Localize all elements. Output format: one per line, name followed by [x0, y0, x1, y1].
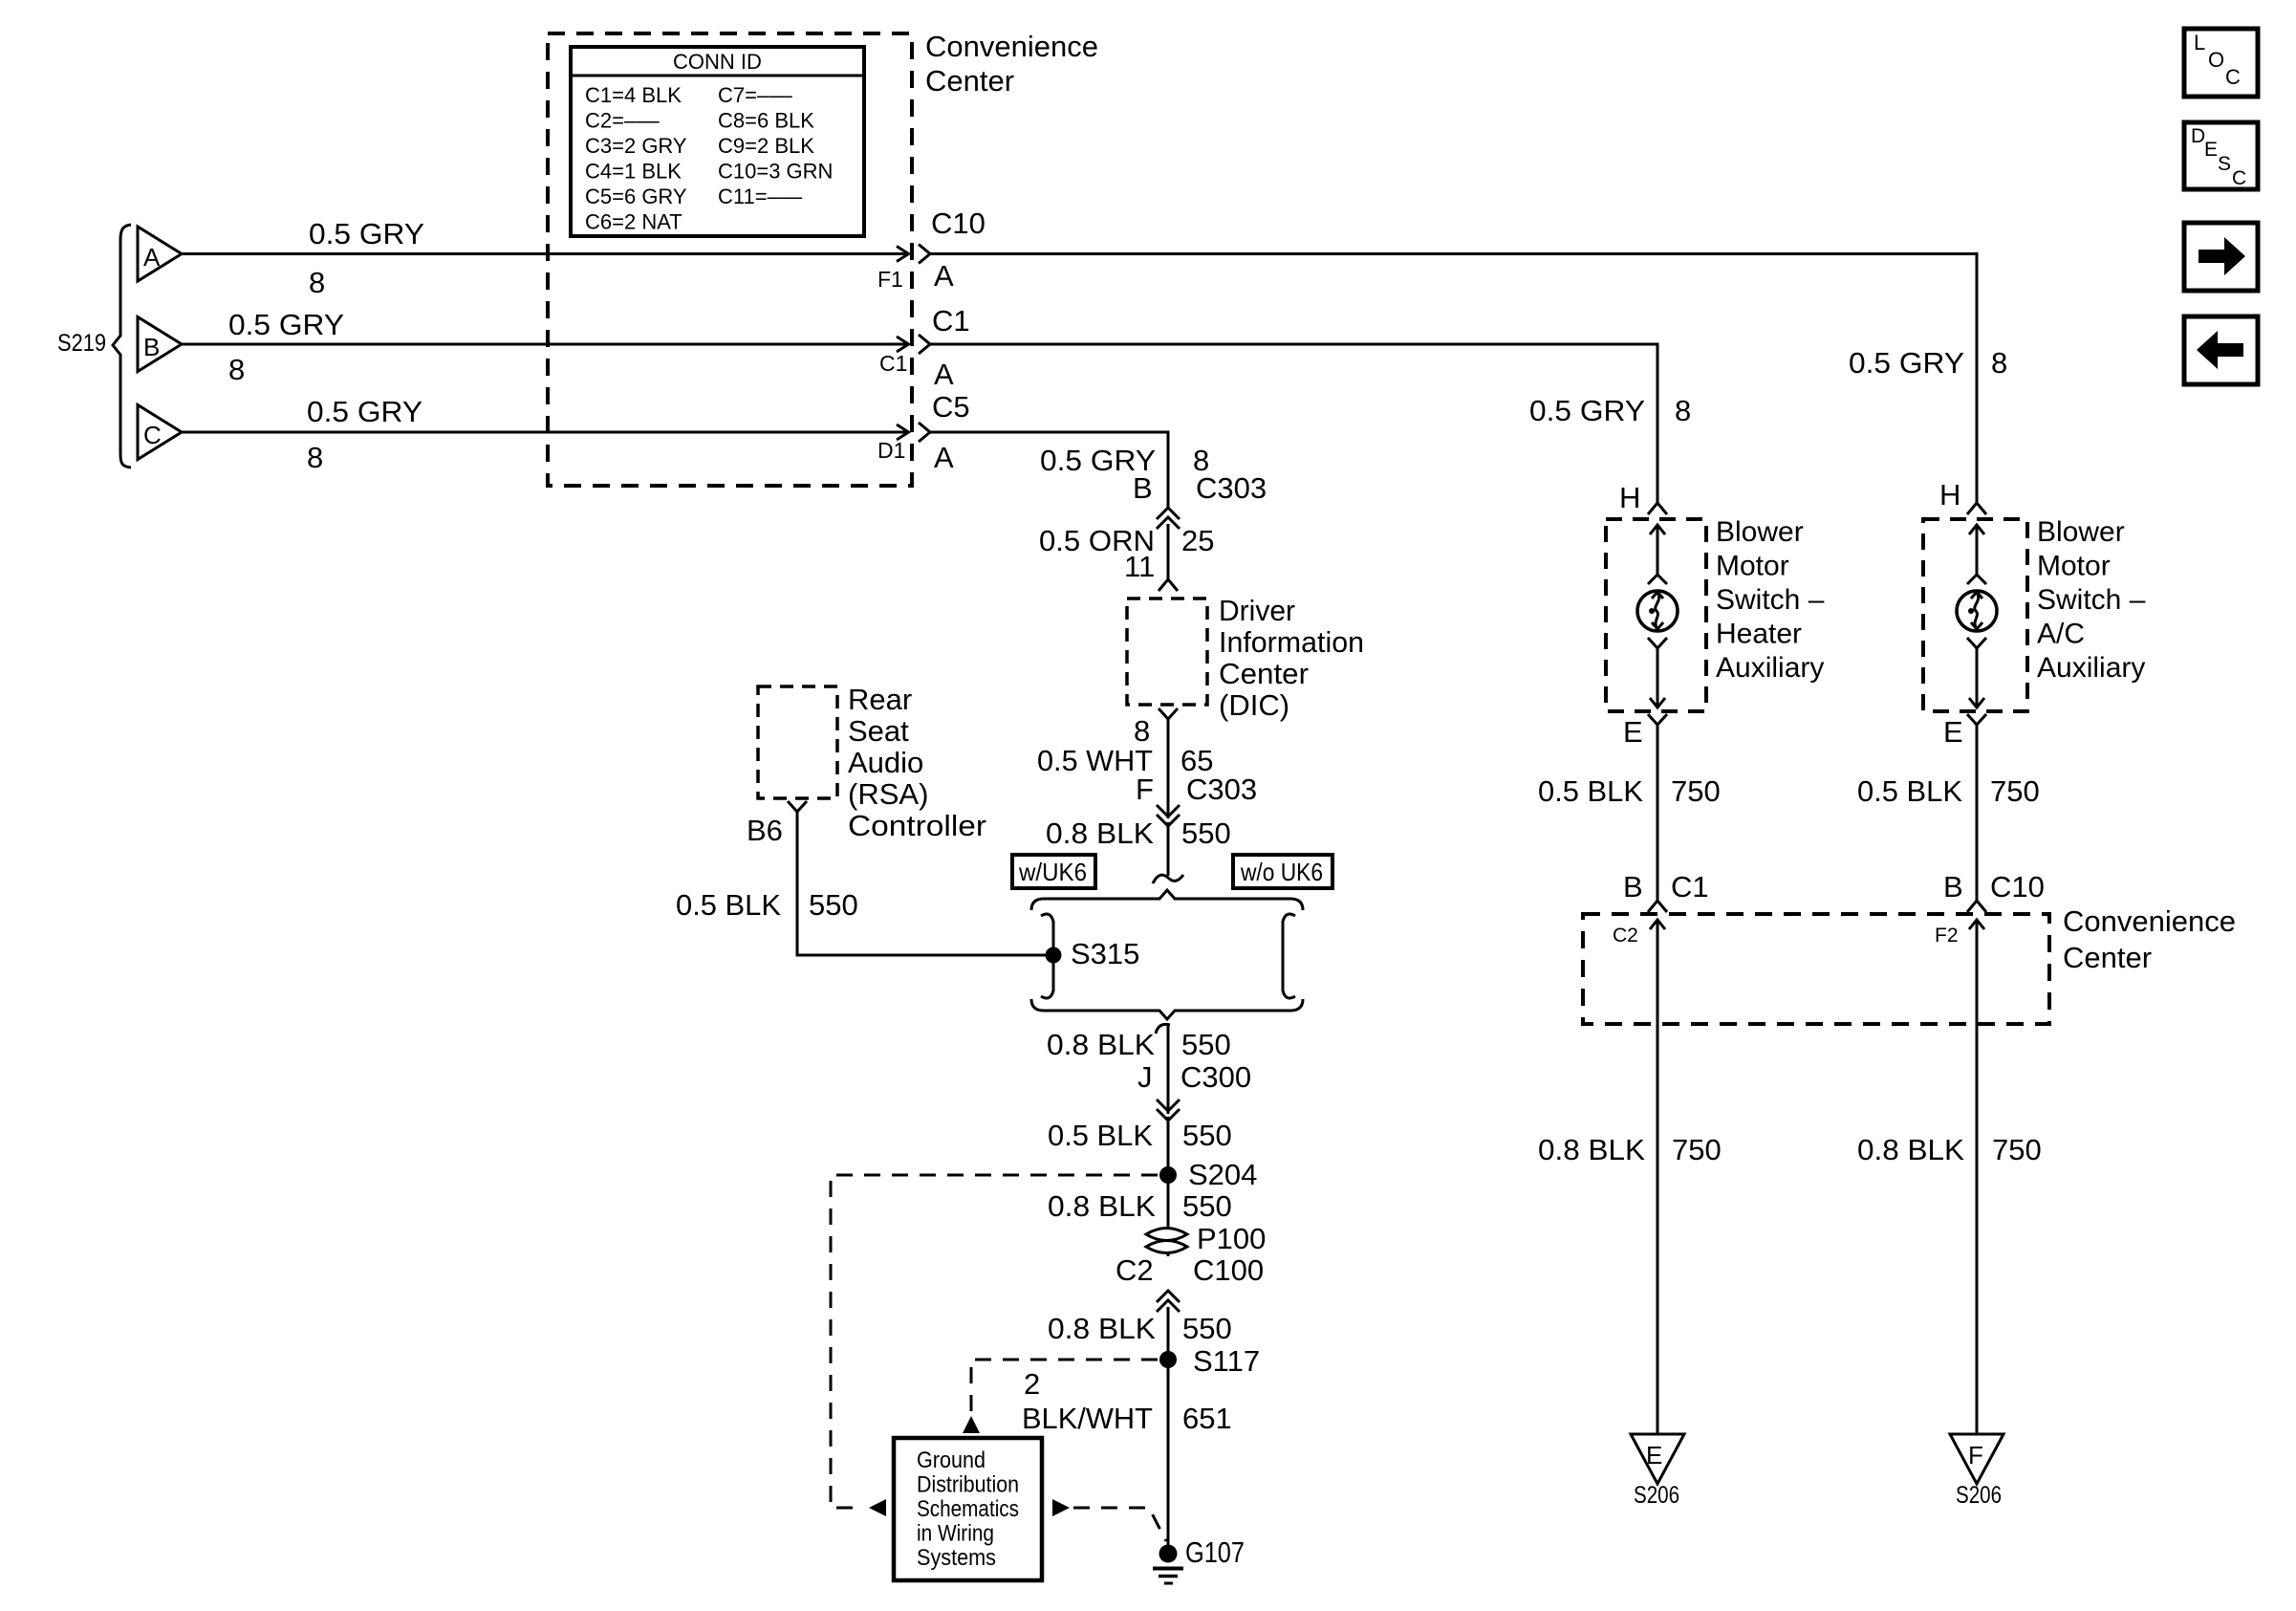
svg-text:S117: S117 [1193, 1344, 1260, 1378]
svg-text:C2=–––: C2=––– [585, 109, 660, 133]
wire C continues to middle column [929, 432, 1168, 510]
svg-text:Distribution: Distribution [917, 1472, 1019, 1498]
splice S204 dot [1159, 1166, 1177, 1184]
svg-text:8: 8 [1134, 714, 1150, 748]
svg-text:0.8 BLK: 0.8 BLK [1857, 1133, 1964, 1166]
svg-text:Information: Information [1219, 625, 1364, 659]
svg-text:Motor: Motor [2037, 551, 2111, 582]
left option wire [1052, 921, 1055, 991]
CONN ID table title divider [573, 75, 862, 77]
ground reference triangle E [1631, 1434, 1684, 1484]
svg-text:E: E [1943, 715, 1963, 749]
legend left arrow box [2184, 316, 2258, 384]
S219 brace [113, 225, 131, 468]
svg-text:C2: C2 [1116, 1253, 1154, 1287]
svg-text:A: A [934, 441, 954, 474]
svg-text:C10: C10 [1990, 870, 2045, 903]
convenience center lower dashed box [1583, 914, 2049, 1024]
svg-text:Center: Center [2063, 941, 2152, 974]
svg-text:E: E [1646, 1441, 1662, 1469]
svg-text:25: 25 [1181, 524, 1214, 557]
svg-text:w/o UK6: w/o UK6 [1240, 858, 1323, 886]
heater internal arrow into C2 [1650, 920, 1665, 929]
wire A horizontal [182, 252, 908, 255]
svg-text:C1: C1 [879, 351, 907, 376]
svg-text:550: 550 [1182, 1312, 1232, 1345]
heater switch internal bottom arrow [1657, 648, 1659, 708]
svg-text:0.8 BLK: 0.8 BLK [1538, 1133, 1645, 1166]
svg-text:C7=–––: C7=––– [718, 83, 792, 107]
svg-text:C8=6 BLK: C8=6 BLK [718, 109, 814, 133]
svg-text:550: 550 [1182, 1119, 1232, 1152]
wire B6 to S315 [797, 812, 1046, 955]
svg-text:CONN ID: CONN ID [673, 50, 762, 74]
splice S315 dot [1046, 947, 1062, 964]
svg-text:8: 8 [1991, 346, 2007, 380]
CONN ID table box [571, 47, 864, 236]
svg-text:A/C: A/C [2037, 619, 2085, 650]
svg-text:2: 2 [1024, 1367, 1040, 1401]
svg-text:J: J [1137, 1060, 1153, 1094]
svg-text:A: A [934, 259, 954, 293]
legend LOC box [2184, 29, 2258, 97]
svg-text:E: E [1623, 715, 1643, 749]
svg-text:D1: D1 [877, 438, 905, 463]
svg-text:C: C [2225, 65, 2241, 89]
wire B horizontal [182, 343, 908, 346]
connector C303 chevrons (down) [1157, 805, 1180, 816]
svg-text:Center: Center [925, 64, 1014, 98]
option tag w/o UK6 box [1233, 855, 1332, 888]
svg-text:Audio: Audio [848, 746, 923, 779]
heater switch internal chevron [1648, 575, 1667, 584]
svg-text:B6: B6 [747, 814, 783, 847]
legend right arrow box [2184, 223, 2258, 291]
svg-text:Convenience: Convenience [925, 30, 1098, 63]
blower motor switch heater dashed box [1606, 519, 1706, 711]
left option wire hook top [1041, 914, 1053, 922]
svg-text:A: A [143, 243, 161, 272]
dashed reference to G107 [1073, 1508, 1166, 1541]
svg-text:8: 8 [307, 441, 323, 474]
svg-text:C1=4 BLK: C1=4 BLK [585, 83, 682, 107]
top brace over S315 options [1031, 890, 1303, 910]
svg-text:0.8 BLK: 0.8 BLK [1048, 1189, 1156, 1223]
wire A arrowhead at F1 [897, 247, 909, 262]
svg-text:Convenience: Convenience [2063, 904, 2236, 938]
svg-text:C: C [2232, 167, 2246, 189]
svg-text:Switch –: Switch – [2037, 584, 2146, 616]
svg-text:H: H [1619, 481, 1640, 514]
svg-text:0.8 BLK: 0.8 BLK [1047, 1028, 1155, 1061]
left option wire hook bottom [1041, 991, 1053, 998]
svg-text:C5=6 GRY: C5=6 GRY [585, 185, 687, 208]
legend DESC box [2184, 122, 2258, 189]
svg-text:C303: C303 [1196, 471, 1267, 505]
svg-text:S219: S219 [57, 330, 106, 357]
fork at C1 [1648, 901, 1667, 912]
svg-text:Schematics: Schematics [917, 1496, 1019, 1522]
connector C303 chevrons (up) [1157, 508, 1180, 519]
svg-text:Rear: Rear [848, 683, 912, 716]
svg-text:(RSA): (RSA) [848, 777, 928, 811]
svg-text:C9=2 BLK: C9=2 BLK [718, 134, 814, 158]
fork at C10 [1967, 901, 1986, 912]
ground reference triangle F [1950, 1434, 2004, 1484]
svg-text:Auxiliary: Auxiliary [2037, 652, 2145, 684]
option tag w/UK6 box [1012, 855, 1095, 888]
heater switch internal fork [1648, 638, 1667, 648]
svg-text:Seat: Seat [848, 714, 909, 748]
wire end tilde [1153, 875, 1183, 883]
svg-text:B: B [1133, 471, 1153, 505]
svg-text:8: 8 [1675, 394, 1691, 427]
svg-text:C303: C303 [1186, 773, 1257, 806]
wire through conv center to S206 F [1976, 920, 1979, 1434]
grommet P100 [1146, 1229, 1187, 1253]
svg-text:550: 550 [1181, 816, 1231, 850]
right option wire hook top [1283, 914, 1295, 922]
svg-text:E: E [2204, 139, 2218, 161]
connector triangle B [138, 317, 182, 372]
hook at top of ground feed wire [1156, 1024, 1170, 1034]
svg-text:C300: C300 [1180, 1060, 1251, 1094]
svg-text:S: S [2218, 153, 2231, 175]
wire B continues to heater column [929, 344, 1657, 503]
svg-text:0.5 GRY: 0.5 GRY [307, 395, 422, 428]
wire B arrowhead at C1 [897, 337, 909, 352]
heater switch internal top arrow [1657, 526, 1659, 575]
ac switch resistor circle [1957, 591, 1997, 631]
DIC connector fork [1159, 579, 1178, 591]
wire C horizontal [182, 431, 908, 434]
svg-text:C10: C10 [931, 207, 986, 240]
svg-text:651: 651 [1182, 1402, 1232, 1435]
svg-text:0.5 GRY: 0.5 GRY [309, 217, 424, 250]
ground distribution reference box [894, 1438, 1042, 1580]
svg-text:750: 750 [1992, 1133, 2042, 1166]
svg-text:S204: S204 [1188, 1158, 1257, 1191]
ac switch internal bottom arrow [1976, 648, 1979, 708]
connector C300 chevrons (down) [1157, 1099, 1180, 1111]
svg-text:C1: C1 [932, 304, 970, 337]
svg-text:(DIC): (DIC) [1219, 688, 1289, 722]
svg-text:C10=3 GRN: C10=3 GRN [718, 160, 833, 184]
svg-text:750: 750 [1990, 774, 2040, 808]
wire S315 to C300 [1167, 1026, 1170, 1114]
svg-text:A: A [934, 358, 954, 391]
svg-text:11: 11 [1124, 550, 1155, 583]
svg-text:C2: C2 [1613, 925, 1638, 947]
svg-text:0.5 GRY: 0.5 GRY [228, 308, 344, 341]
svg-text:550: 550 [809, 888, 858, 922]
connector triangle A [138, 227, 182, 281]
svg-text:C1: C1 [1671, 870, 1709, 903]
svg-text:550: 550 [1182, 1189, 1232, 1223]
svg-text:C11=–––: C11=––– [718, 185, 803, 208]
svg-text:S206: S206 [1956, 1482, 2002, 1509]
splice S117 dot [1159, 1351, 1177, 1368]
svg-text:C100: C100 [1193, 1253, 1264, 1287]
svg-text:L: L [2194, 31, 2205, 54]
svg-text:Auxiliary: Auxiliary [1716, 652, 1824, 684]
svg-text:C5: C5 [932, 390, 970, 424]
svg-text:C4=1 BLK: C4=1 BLK [585, 160, 682, 184]
svg-text:Driver: Driver [1219, 594, 1295, 627]
RSA controller dashed box [758, 686, 837, 798]
wire B connector fork C1 [919, 335, 930, 354]
wire C arrowhead at D1 [897, 425, 909, 440]
wire C connector fork C5 [919, 423, 930, 442]
svg-text:0.5 BLK: 0.5 BLK [676, 888, 781, 922]
reference arrow right [1052, 1499, 1070, 1516]
blower motor switch ac dashed box [1923, 519, 2027, 711]
right option wire hook bottom [1283, 991, 1295, 998]
svg-text:0.8 BLK: 0.8 BLK [1046, 816, 1154, 850]
svg-text:Controller: Controller [848, 809, 986, 842]
svg-text:H: H [1939, 478, 1960, 512]
svg-text:O: O [2208, 48, 2224, 72]
wire through conv center to S206 E [1657, 920, 1659, 1434]
ac switch internal fork [1967, 638, 1986, 648]
fork below heater box [1648, 714, 1667, 725]
fork below RSA box [788, 801, 807, 812]
svg-text:S315: S315 [1071, 937, 1139, 970]
connector triangle C [138, 405, 182, 460]
ground symbol [1153, 1567, 1183, 1571]
svg-text:B: B [143, 333, 160, 361]
svg-text:C: C [143, 421, 162, 449]
wire ac switch to convenience center [1976, 725, 1979, 900]
reference arrow left [869, 1499, 886, 1516]
svg-text:F: F [1136, 773, 1154, 806]
svg-text:w/UK6: w/UK6 [1018, 858, 1087, 886]
svg-text:C6=2 NAT: C6=2 NAT [585, 210, 682, 234]
wire A connector fork C10 [919, 245, 930, 264]
wire DIC to C303 F [1167, 719, 1170, 818]
wire from C303 to DIC [1167, 524, 1170, 579]
svg-text:750: 750 [1671, 774, 1721, 808]
svg-text:750: 750 [1672, 1133, 1722, 1166]
svg-text:Switch –: Switch – [1716, 584, 1825, 616]
svg-text:8: 8 [228, 353, 245, 386]
svg-text:0.5 BLK: 0.5 BLK [1857, 774, 1962, 808]
ac switch internal chevron [1967, 575, 1986, 584]
right option wire [1282, 921, 1285, 991]
svg-text:P100: P100 [1197, 1222, 1266, 1255]
wire A continues to right column [929, 254, 1977, 504]
wire S117 to G107 [1167, 1360, 1170, 1547]
svg-text:Blower: Blower [1716, 516, 1804, 548]
svg-text:Blower: Blower [2037, 516, 2125, 548]
svg-text:0.5 BLK: 0.5 BLK [1538, 774, 1643, 808]
svg-text:0.5 GRY: 0.5 GRY [1849, 346, 1964, 380]
svg-text:8: 8 [309, 266, 325, 299]
svg-text:Heater: Heater [1716, 619, 1802, 650]
ac switch internal top arrow [1976, 526, 1979, 575]
fork at H (heater) [1648, 503, 1667, 514]
svg-text:F2: F2 [1935, 925, 1959, 947]
wire C100 to S117 [1167, 1307, 1170, 1360]
ground G107 dot [1159, 1545, 1178, 1563]
reference arrow up [963, 1416, 980, 1433]
svg-text:0.5 BLK: 0.5 BLK [1048, 1119, 1153, 1152]
wire C300 to S204 [1167, 1117, 1170, 1175]
svg-text:G107: G107 [1185, 1535, 1245, 1569]
convenience center dashed box top [548, 33, 912, 486]
svg-text:BLK/WHT: BLK/WHT [1022, 1402, 1153, 1435]
ac internal arrow into F2 [1969, 920, 1984, 929]
svg-text:F1: F1 [877, 267, 903, 292]
dashed reference from S204 [831, 1175, 1158, 1508]
wire to splice area [1167, 822, 1170, 876]
svg-text:B: B [1623, 870, 1643, 903]
svg-text:Ground: Ground [917, 1448, 986, 1473]
svg-text:in Wiring: in Wiring [917, 1521, 994, 1547]
dashed reference from S117 [971, 1360, 1158, 1412]
wire S204 to P100 [1167, 1175, 1170, 1256]
svg-text:S206: S206 [1634, 1482, 1679, 1509]
svg-text:0.5 GRY: 0.5 GRY [1529, 394, 1645, 427]
svg-text:550: 550 [1181, 1028, 1231, 1061]
svg-text:F: F [1968, 1441, 1983, 1469]
svg-text:C3=2 GRY: C3=2 GRY [585, 134, 687, 158]
DIC dashed box [1127, 599, 1207, 705]
fork below ac box [1967, 714, 1986, 725]
connector C100 chevrons (up) [1157, 1291, 1180, 1302]
fork at H (ac) [1967, 503, 1986, 514]
wire heater switch to convenience center [1657, 725, 1659, 900]
svg-text:B: B [1943, 870, 1963, 903]
svg-text:Motor: Motor [1716, 551, 1789, 582]
svg-text:Center: Center [1219, 657, 1309, 690]
heater switch resistor circle [1637, 591, 1678, 631]
svg-text:0.8 BLK: 0.8 BLK [1048, 1312, 1156, 1345]
fork below DIC [1159, 708, 1178, 719]
svg-text:Systems: Systems [917, 1545, 996, 1571]
bottom brace under S315 options [1031, 999, 1303, 1019]
svg-text:D: D [2191, 125, 2205, 147]
